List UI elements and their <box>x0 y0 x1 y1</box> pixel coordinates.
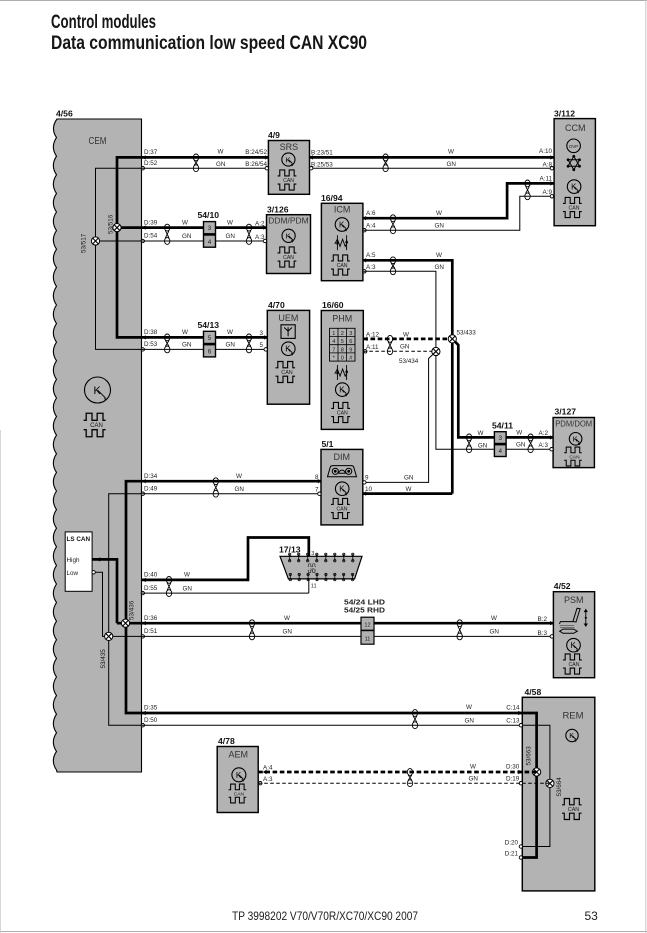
ICM terminal A:6 <box>362 216 366 220</box>
svg-text:GN: GN <box>235 486 245 493</box>
svg-text:GN: GN <box>182 342 192 349</box>
twisted pair A:11/A:9 <box>525 180 530 187</box>
CCM terminal A:8 <box>550 167 553 170</box>
svg-text:CAN: CAN <box>568 807 579 813</box>
wire A:12 W dashed PHM to 53/433 <box>363 338 452 341</box>
wire A:3 GN ICM down to 53/434 <box>363 271 495 449</box>
svg-text:53: 53 <box>585 909 599 923</box>
wire D:53 GN to UEM <box>142 348 268 350</box>
DIM control-module symbol <box>335 482 349 496</box>
svg-text:PHM: PHM <box>332 313 352 323</box>
wire CEM thick bus D:34-D:35 <box>126 481 142 713</box>
ICM handsfree symbol <box>335 235 348 250</box>
page left edge <box>0 430 1 933</box>
svg-text:54/11: 54/11 <box>492 421 513 431</box>
svg-text:3: 3 <box>208 225 212 232</box>
wire CEM thin bus D:49-D:50 <box>109 494 142 726</box>
twisted pair row1 right <box>383 154 388 161</box>
svg-text:53/436: 53/436 <box>129 600 136 620</box>
wire CEM D:54 stub <box>96 240 142 242</box>
wire CEM D:51 stub <box>109 635 142 637</box>
CCM control-module symbol <box>567 180 581 194</box>
svg-text:W: W <box>436 210 442 217</box>
wire D:35 W to REM <box>142 712 522 715</box>
twisted pair 54/11 right <box>528 434 533 441</box>
svg-text:DDM/PDM: DDM/PDM <box>268 217 309 226</box>
twisted pair D:36/D:51 left <box>249 620 254 627</box>
node 53/663 junction <box>533 768 541 776</box>
ICM terminal A:3 <box>363 270 366 273</box>
UEM CAN symbol <box>276 362 296 383</box>
svg-text:GN: GN <box>469 776 479 783</box>
wire D:54 GN to DDM <box>142 240 267 242</box>
wire A:6 W ICM to CCM A:11 <box>363 183 554 218</box>
page bottom edge <box>0 931 647 933</box>
svg-text:A:11: A:11 <box>366 344 379 351</box>
node 53/435 junction <box>105 632 113 640</box>
wire CEM thick bus D:37-D:38 <box>117 157 142 337</box>
svg-text:UEM: UEM <box>278 313 298 323</box>
svg-text:K: K <box>569 732 574 740</box>
svg-text:TP 3998202 V70/V70R/XC70/XC90: TP 3998202 V70/V70R/XC70/XC90 2007 <box>232 909 418 923</box>
svg-text:K: K <box>286 232 291 241</box>
svg-text:D:51: D:51 <box>144 628 158 635</box>
twisted pair row1 left <box>193 154 198 161</box>
svg-text:54/13: 54/13 <box>198 320 220 330</box>
node 53/436 junction <box>121 619 129 627</box>
wire LS CAN High <box>92 559 117 623</box>
REM terminal D:30 <box>518 770 522 774</box>
AEM control-module symbol <box>232 768 246 782</box>
module PDM/DOM 3/127 box <box>553 418 594 468</box>
svg-text:6: 6 <box>208 349 212 356</box>
svg-text:16/94: 16/94 <box>321 193 343 203</box>
wire GN 54/11 to PDM/DOM <box>506 448 553 450</box>
DIM CAN symbol <box>331 498 350 518</box>
module DDM/PDM 3/126 box <box>267 215 311 274</box>
svg-text:CAN: CAN <box>234 791 245 797</box>
svg-text:5: 5 <box>259 342 263 349</box>
svg-text:D:30: D:30 <box>506 764 520 771</box>
svg-text:D:50: D:50 <box>144 717 158 724</box>
svg-text:53/663: 53/663 <box>526 746 533 766</box>
svg-text:CEM: CEM <box>89 136 107 147</box>
module CEM 4/56 box <box>53 119 141 772</box>
svg-text:LS CAN: LS CAN <box>67 536 91 543</box>
twisted pair D:34/D:49 <box>213 478 218 485</box>
svg-text:W: W <box>516 429 522 436</box>
PDM/DOM CAN symbol <box>564 447 582 466</box>
connector 17/13 body <box>280 556 362 579</box>
svg-text:8: 8 <box>341 347 344 353</box>
17/13 pins <box>289 553 354 581</box>
twisted pair 54/11 left <box>466 434 471 441</box>
svg-text:W: W <box>184 572 190 579</box>
svg-text:GN: GN <box>182 233 192 240</box>
wire LS CAN Low <box>93 572 109 636</box>
svg-text:16/60: 16/60 <box>322 300 344 310</box>
svg-text:4/58: 4/58 <box>525 687 542 697</box>
CCM snowflake symbol <box>567 155 580 170</box>
ICM CAN symbol <box>331 255 350 275</box>
svg-text:5: 5 <box>341 339 344 345</box>
SRS CAN symbol <box>278 170 297 190</box>
REM internal thin C:13-D:20 <box>522 725 550 846</box>
svg-text:GN: GN <box>478 443 488 450</box>
svg-text:6: 6 <box>349 339 352 345</box>
ICM terminal A:5 <box>362 258 366 262</box>
svg-text:A:2: A:2 <box>539 430 549 437</box>
wire D:55 GN to 17/13 <box>142 579 309 593</box>
svg-text:4/56: 4/56 <box>56 108 73 118</box>
svg-text:W: W <box>478 430 484 437</box>
svg-text:CAN: CAN <box>281 370 292 376</box>
svg-text:53/435: 53/435 <box>100 649 107 669</box>
svg-text:53/433: 53/433 <box>457 329 477 336</box>
svg-text:W: W <box>436 252 442 259</box>
17/13 CAN symbol <box>308 564 316 573</box>
wire D:52 GN to SRS <box>142 167 269 169</box>
svg-text:1: 1 <box>332 331 335 337</box>
DDM terminal A:3 <box>263 239 266 242</box>
twisted pair A:12/A:11 <box>387 335 392 342</box>
svg-text:D:36: D:36 <box>144 615 158 622</box>
wire D:50 GN to REM <box>142 724 522 726</box>
wire W branch 53/433 to 54/11 <box>452 339 494 438</box>
PDM/DOM terminal A:2 <box>550 435 554 439</box>
wire D:51 GN to PSM <box>142 635 554 637</box>
wire CEM D:36 stub <box>117 622 142 625</box>
wire B:25/53 GN SRS to CCM <box>310 167 554 169</box>
svg-text:D:49: D:49 <box>144 485 158 492</box>
svg-text:W: W <box>182 329 188 336</box>
svg-text:D:38: D:38 <box>144 329 158 336</box>
svg-text:B:3: B:3 <box>538 630 548 637</box>
svg-text:GN: GN <box>490 629 500 636</box>
svg-text:53/517: 53/517 <box>81 233 88 253</box>
PSM CAN symbol <box>563 654 582 674</box>
wire D:40 W to 17/13 <box>142 538 309 580</box>
REM internal thick C:14-D:21 <box>522 713 537 858</box>
ICM terminal A:4 <box>363 229 366 232</box>
module PHM 16/60 box <box>321 311 363 430</box>
svg-text:4: 4 <box>208 239 212 246</box>
svg-text:High: High <box>67 557 80 564</box>
AEM terminal A:4 <box>263 770 267 774</box>
PHM CAN symbol <box>331 402 350 422</box>
svg-text:4: 4 <box>332 339 335 345</box>
wire A:4 GN ICM to CCM A:9 <box>363 196 554 230</box>
svg-text:A:10: A:10 <box>539 148 552 155</box>
svg-text:4/52: 4/52 <box>554 581 571 591</box>
twisted pair D:36/D:51 right <box>457 620 462 627</box>
SRS terminal B:24/52 <box>265 155 269 159</box>
svg-text:3/127: 3/127 <box>555 407 577 417</box>
svg-text:D:37: D:37 <box>144 149 158 156</box>
svg-text:C:13: C:13 <box>506 717 520 724</box>
wire A:4 W dashed AEM to REM D:30 <box>258 771 536 774</box>
svg-text:D:35: D:35 <box>144 705 158 712</box>
REM control-module symbol <box>566 729 578 741</box>
twisted pair D:40/D:55 <box>166 577 171 584</box>
svg-text:A:3: A:3 <box>366 264 376 271</box>
svg-text:B:26/54: B:26/54 <box>245 161 267 168</box>
svg-text:3: 3 <box>311 551 314 557</box>
wire CEM D:39 stub <box>117 226 142 229</box>
module REM 4/58 box <box>522 697 595 891</box>
svg-text:ICM: ICM <box>334 205 351 215</box>
svg-text:53/664: 53/664 <box>556 777 563 797</box>
svg-text:GN: GN <box>400 344 410 351</box>
svg-text:54/25 RHD: 54/25 RHD <box>344 607 385 614</box>
wire A:5 W ICM down to 53/433 <box>363 260 452 493</box>
svg-text:SRS: SRS <box>280 142 299 152</box>
CCM terminal A:10 <box>550 155 554 159</box>
wire D:36 W to PSM <box>142 622 554 625</box>
svg-text:W: W <box>466 704 472 711</box>
wire A:11 GN dashed PHM to 53/434 <box>363 350 435 352</box>
SRS control-module symbol <box>282 153 295 166</box>
svg-text:AEM: AEM <box>229 750 249 760</box>
svg-text:10: 10 <box>365 486 373 493</box>
DIM instrument symbol <box>328 466 357 477</box>
svg-text:D:39: D:39 <box>144 219 158 226</box>
svg-text:W: W <box>227 329 233 336</box>
PSM terminal B:3 <box>550 635 553 638</box>
AEM terminal A:3 <box>259 782 262 785</box>
svg-text:W: W <box>491 615 497 622</box>
PSM seat symbol <box>560 608 588 633</box>
svg-text:B:25/53: B:25/53 <box>311 162 333 169</box>
svg-text:D:40: D:40 <box>144 572 158 579</box>
UEM terminal 3 <box>264 335 268 339</box>
svg-text:GN: GN <box>183 585 193 592</box>
wire D:37 W to SRS <box>142 156 269 159</box>
PHM handsfree symbol <box>335 365 348 380</box>
svg-text:A:4: A:4 <box>366 222 376 229</box>
svg-text:CAN: CAN <box>337 506 348 512</box>
REM terminal C:13 <box>519 724 522 727</box>
svg-text:D:20: D:20 <box>505 840 519 847</box>
svg-text:K: K <box>573 435 578 444</box>
svg-text:D:21: D:21 <box>505 851 519 858</box>
svg-text:W: W <box>406 486 412 493</box>
svg-text:W: W <box>227 219 233 226</box>
wire B:23/51 W SRS to CCM <box>310 156 554 159</box>
AEM CAN symbol <box>229 784 247 803</box>
SRS terminal B:25/53 <box>310 167 313 170</box>
svg-text:W: W <box>236 473 242 480</box>
PHM terminal A:11 <box>364 350 367 353</box>
svg-text:A:12: A:12 <box>366 332 379 339</box>
DIM terminal 8 <box>318 479 322 483</box>
CCM terminal A:11 <box>550 181 554 185</box>
PSM terminal B:2 <box>550 621 554 625</box>
svg-text:GN: GN <box>447 161 457 168</box>
svg-text:Low: Low <box>67 570 79 577</box>
svg-text:9: 9 <box>365 475 369 482</box>
ICM control-module symbol <box>335 218 349 232</box>
CCM terminal A:9 <box>550 195 553 198</box>
UEM antenna symbol <box>281 325 295 339</box>
UEM control-module symbol <box>282 342 296 356</box>
wire DIM pin10 W <box>363 492 453 495</box>
svg-text:3/112: 3/112 <box>554 108 575 118</box>
svg-text:5/1: 5/1 <box>322 439 334 449</box>
svg-text:W: W <box>403 332 409 339</box>
svg-text:D:52: D:52 <box>144 160 158 167</box>
svg-text:3: 3 <box>498 435 502 442</box>
svg-text:4/78: 4/78 <box>218 736 235 746</box>
wire GN jog 53/434 to DIM pin 9 <box>363 352 436 483</box>
svg-text:W: W <box>470 764 476 771</box>
svg-text:PSM: PSM <box>564 595 584 605</box>
svg-text:D:54: D:54 <box>144 233 158 240</box>
DIM terminal 10 <box>362 491 366 495</box>
svg-text:CCM: CCM <box>565 123 586 133</box>
SRS terminal B:26/54 <box>265 167 268 170</box>
svg-text:GN: GN <box>465 717 475 724</box>
svg-text:D:19: D:19 <box>506 776 520 783</box>
node 53/664 junction <box>546 779 554 787</box>
CEM control-module symbol <box>85 377 111 403</box>
wire A:3 GN dashed AEM to REM D:19 <box>258 782 550 784</box>
CCM OVP symbol <box>567 139 581 153</box>
svg-text:CAN: CAN <box>337 263 348 269</box>
svg-text:5: 5 <box>208 335 212 342</box>
svg-text:C:14: C:14 <box>506 705 520 712</box>
connector 54/24 pins <box>361 617 374 630</box>
REM terminal D:19 <box>519 782 522 785</box>
page top edge <box>0 0 647 2</box>
module CCM 3/112 box <box>554 119 595 226</box>
SRS terminal B:23/51 <box>309 155 313 159</box>
module PSM 4/52 box <box>553 592 594 678</box>
module ICM 16/94 box <box>321 203 363 280</box>
twisted pair A:5/A:3 <box>390 257 395 264</box>
svg-text:DIM: DIM <box>334 452 351 462</box>
svg-text:CAN: CAN <box>283 178 294 184</box>
svg-text:W: W <box>284 615 290 622</box>
svg-text:9: 9 <box>349 347 352 353</box>
svg-text:A:4: A:4 <box>263 764 273 771</box>
svg-text:Data communication low speed C: Data communication low speed CAN XC90 <box>51 33 367 54</box>
svg-text:K: K <box>94 385 101 397</box>
svg-text:A:6: A:6 <box>366 210 376 217</box>
svg-text:OVP: OVP <box>569 144 578 149</box>
PSM control-module symbol <box>567 638 581 652</box>
node 53/517 junction <box>91 237 99 245</box>
svg-text:12: 12 <box>364 623 370 629</box>
svg-text:GN: GN <box>435 264 445 271</box>
twisted pair row2 left <box>165 224 170 231</box>
node 53/434 junction <box>432 347 440 355</box>
DDM terminal A:2 <box>263 225 267 229</box>
svg-text:CAN: CAN <box>569 205 580 211</box>
REM terminal D:20 <box>519 845 522 848</box>
svg-text:CAN: CAN <box>569 454 580 460</box>
node 53/433 junction <box>448 335 456 343</box>
svg-text:3: 3 <box>349 331 352 337</box>
svg-text:B:2: B:2 <box>538 616 548 623</box>
svg-text:GN: GN <box>516 442 526 449</box>
svg-text:4/70: 4/70 <box>268 300 285 310</box>
module SRS 4/9 box <box>268 141 309 195</box>
twisted pair row3 right <box>246 334 251 341</box>
PHM control-module symbol <box>336 383 350 397</box>
svg-text:54/24 LHD: 54/24 LHD <box>344 599 385 606</box>
REM terminal C:14 <box>518 711 522 715</box>
svg-text:A:3: A:3 <box>263 776 273 783</box>
svg-text:REM: REM <box>562 711 583 722</box>
wire CEM thin bus D:52-D:53 <box>96 168 142 349</box>
twisted pair row2 right <box>246 224 251 231</box>
LS CAN connector box <box>65 532 92 591</box>
svg-text:3: 3 <box>259 330 263 337</box>
svg-text:B:24/52: B:24/52 <box>245 149 267 156</box>
svg-text:11: 11 <box>311 584 317 590</box>
svg-text:7: 7 <box>332 347 335 353</box>
svg-text:W: W <box>448 148 454 155</box>
node 53/516 junction <box>113 224 121 232</box>
svg-text:GN: GN <box>283 629 293 636</box>
module UEM 4/70 box <box>267 310 309 404</box>
svg-text:CAN: CAN <box>569 662 580 668</box>
wire D:39 W to DDM <box>142 226 267 229</box>
svg-text:D:53: D:53 <box>144 341 158 348</box>
DDM CAN symbol <box>278 247 297 267</box>
page right edge <box>645 0 647 933</box>
REM terminal D:21 <box>519 856 522 859</box>
svg-text:D:34: D:34 <box>144 473 158 480</box>
wire W 54/11 to PDM/DOM <box>506 436 553 439</box>
svg-text:A:3: A:3 <box>539 442 549 449</box>
twisted pair row3 left <box>165 334 170 341</box>
svg-text:53/434: 53/434 <box>399 358 419 365</box>
wire D:38 W to UEM <box>142 336 268 339</box>
svg-text:CAN: CAN <box>337 410 348 416</box>
svg-text:K: K <box>285 155 290 164</box>
svg-text:4: 4 <box>498 448 502 455</box>
svg-text:GN: GN <box>216 161 226 168</box>
PHM terminal A:12 <box>364 337 368 341</box>
DIM terminal 7 <box>318 492 321 495</box>
svg-text:GN: GN <box>404 475 414 482</box>
module AEM 4/78 box <box>217 747 258 813</box>
svg-text:GN: GN <box>226 233 236 240</box>
twisted pair A:6/A:4 <box>390 215 395 222</box>
DIM terminal 9 <box>363 481 366 484</box>
svg-text:CAN: CAN <box>90 423 103 429</box>
svg-text:CAN: CAN <box>310 568 315 571</box>
wire D:49 GN to DIM <box>142 493 322 495</box>
svg-text:CAN: CAN <box>283 255 294 261</box>
svg-text:GN: GN <box>226 342 236 349</box>
svg-text:B:23/51: B:23/51 <box>311 150 333 157</box>
svg-text:A:5: A:5 <box>366 252 376 259</box>
svg-text:2: 2 <box>341 331 344 337</box>
twisted pair AEM dashed <box>407 769 412 776</box>
DDM control-module symbol <box>282 229 295 242</box>
REM CAN symbol <box>562 799 582 820</box>
CCM CAN symbol <box>563 197 582 217</box>
svg-text:D:55: D:55 <box>144 585 158 592</box>
PDM/DOM terminal A:3 <box>550 448 553 451</box>
svg-text:GN: GN <box>435 222 445 229</box>
PHM keypad symbol <box>330 328 356 361</box>
svg-text:W: W <box>218 148 224 155</box>
svg-text:Control modules: Control modules <box>51 12 156 33</box>
